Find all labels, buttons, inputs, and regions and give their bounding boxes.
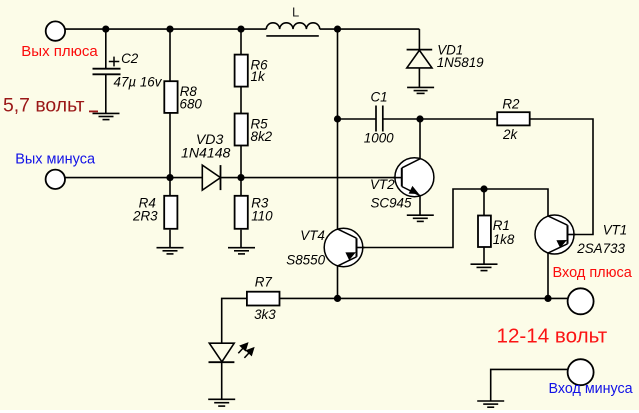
LED emission arrows [238,343,253,358]
wire input minus [491,369,568,401]
svg-text:C2: C2 [121,51,139,66]
wire top rail right segment [320,28,420,30]
wire R7 left to LED [222,298,247,343]
wire VT2 emitter to ground [419,196,421,216]
plus sign C2 [109,57,120,67]
wire R3 bottom [240,230,242,248]
junction C2/top rail [102,26,109,33]
wire VT4 collector column [337,29,339,229]
junction VT4 emitter/bottom rail [334,295,341,302]
resistor R5 [235,114,248,146]
junction R8/top rail [166,26,173,33]
wire bottom rail [280,297,568,299]
svg-text:L: L [292,4,299,19]
svg-text:8k2: 8k2 [251,129,273,144]
svg-text:1k8: 1k8 [493,232,515,247]
svg-text:110: 110 [251,208,273,223]
wire R1 bottom [483,247,485,264]
resistor R7 [247,292,280,306]
resistor R8 [164,81,177,113]
svg-text:1000: 1000 [364,130,394,145]
svg-text:C1: C1 [371,90,388,105]
svg-text:VT1: VT1 [603,222,628,237]
resistor R1 [478,216,491,248]
junction VT1 emitter/bottom rail [544,295,551,302]
svg-text:R1: R1 [493,218,510,233]
svg-text:3k3: 3k3 [254,307,276,322]
svg-text:5,7 вольт: 5,7 вольт [3,95,85,117]
terminal out plus [46,21,65,40]
wire R4 top [169,178,171,196]
junction R1 top node [480,185,487,192]
svg-text:R7: R7 [255,275,273,290]
wire R5 bottom to mid rail [240,146,242,178]
junction C1 left node [334,115,341,122]
capacitor C1 [376,106,383,132]
diode VD1 [407,50,432,68]
resistor R2 [497,112,530,125]
wire R3 top [240,178,242,196]
capacitor C2 [93,69,121,75]
transistor VT2 [393,158,434,197]
inductor L [266,23,319,36]
junction L out/top rail [334,26,341,33]
svg-text:Вых плюса: Вых плюса [21,43,98,60]
svg-text:Вход минуса: Вход минуса [549,381,633,397]
wire VD1 drop [418,29,420,49]
wire LED to ground [221,362,223,399]
svg-text:47µ 16v: 47µ 16v [114,74,163,89]
svg-text:1N4148: 1N4148 [181,145,231,161]
svg-text:1k: 1k [251,69,266,84]
wire R8 top [169,29,171,81]
junction R5/R3/mid rail [237,174,244,181]
underscore after 5,7 volt [89,110,98,112]
ground (VT2) [407,215,434,221]
wire VT4 emitter down [337,266,339,298]
svg-text:2SA733: 2SA733 [576,241,625,256]
wire R6 top [240,29,242,54]
wire VT1 emitter down [547,253,549,298]
wire R6 to R5 [240,87,242,114]
wire C1 left [338,118,377,120]
wire R1 top [483,189,485,216]
transistor VT4 [324,228,364,267]
junction R8/R4/mid rail [166,174,173,181]
svg-text:2R3: 2R3 [132,208,158,223]
transistor VT1 [535,215,576,254]
resistor R4 [164,196,177,229]
terminal in minus [568,359,594,385]
wire R8 bottom to mid rail [169,113,171,178]
svg-text:Вход плюса: Вход плюса [553,265,633,281]
resistor R6 [235,55,248,87]
ground (R3) [228,248,255,254]
wire top rail [65,28,266,30]
svg-text:12-14 вольт: 12-14 вольт [497,325,608,348]
wire C1 right to R2 [383,118,497,120]
svg-text:Вых минуса: Вых минуса [15,151,96,167]
svg-text:R2: R2 [502,97,520,112]
junction C1 right/VT2 collector [416,115,423,122]
wire VD1 to ground [418,68,420,88]
ground (R1) [471,264,498,270]
svg-text:1N5819: 1N5819 [437,55,484,70]
ground (C2) [93,113,120,119]
svg-text:VT4: VT4 [300,228,325,243]
wire C2 to ground [105,75,107,114]
ground (LED) [208,399,235,406]
wire VT2 collector [419,119,421,159]
ground (VD1) [407,87,434,93]
junction R6/top rail [237,26,244,33]
svg-text:680: 680 [180,97,203,112]
terminal out minus [46,170,65,189]
svg-text:S8550: S8550 [286,253,325,268]
resistor R3 [235,196,248,229]
svg-text:SC945: SC945 [371,195,412,210]
ground (R4) [157,248,184,254]
diode VD3 [202,165,220,190]
LED diode [209,343,234,362]
wire VT4 base to R1 junction to VT1 collector [357,189,549,248]
wire C2 drop [105,29,107,68]
svg-text:VT2: VT2 [370,177,395,192]
wire mid rail VD3 to VT2 base [221,177,402,179]
ground (input minus) [477,401,504,407]
wire mid rail left [65,177,203,179]
svg-text:2k: 2k [502,127,518,142]
wire R2 to VT1 base [530,119,593,235]
terminal in plus [568,288,594,314]
white strip bottom [0,410,639,413]
wire R4 bottom [169,230,171,248]
